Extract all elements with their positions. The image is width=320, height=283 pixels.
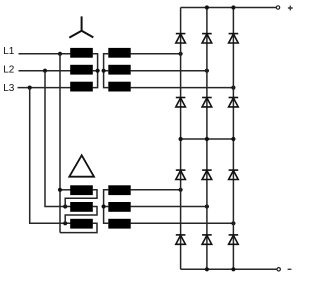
wire: wye secondary phase2 to bridge1 leg B [131, 70, 207, 72]
node: delta corner 2 [63, 204, 67, 208]
winding: delta primary phase 1 [70, 185, 93, 195]
winding: wye primary phase 2 [70, 65, 93, 75]
winding: delta secondary phase 2 [108, 202, 130, 212]
diode D11 bridge2 lower leg B [202, 235, 212, 244]
wire L1 input to wye primary [19, 53, 71, 55]
diode D10 bridge2 lower leg A [176, 235, 186, 244]
node: bridge1 leg A tap [179, 52, 183, 56]
winding: wye secondary phase 3 [108, 82, 130, 92]
node: mid rail leg C [231, 137, 235, 141]
diode D8 bridge2 upper leg B [202, 170, 212, 179]
node: mid rail leg B [205, 137, 209, 141]
svg-text:L2: L2 [3, 64, 15, 75]
diode D12 bridge2 lower leg C [229, 235, 239, 244]
winding: delta secondary phase 3 [108, 219, 130, 229]
node: mid rail leg A [179, 137, 183, 141]
diode D9 bridge2 upper leg C [229, 170, 239, 179]
node: bridge2 leg A tap [179, 188, 183, 192]
wire: wye primary neutral bracket [93, 54, 98, 88]
svg-text:L3: L3 [3, 83, 15, 94]
wire: negative DC rail [181, 268, 277, 270]
winding: wye primary phase 3 [70, 82, 93, 92]
wire: delta feed from L3 (vertical + horizontal) [30, 88, 71, 224]
node: rail+ leg B [205, 5, 209, 9]
node: delta corner 3 [63, 221, 67, 225]
wire: delta secondary phase3 to bridge2 leg C [131, 222, 234, 224]
wire L3 input to wye primary [18, 87, 71, 89]
node: bridge2 leg C tap [231, 221, 235, 225]
winding: delta primary phase 2 [70, 202, 93, 212]
wire: positive DC rail [181, 7, 277, 9]
wire: delta feed from L1 (vertical) [59, 54, 61, 233]
label - [288, 268, 292, 270]
delta symbol above second transformer [69, 155, 94, 176]
winding: delta secondary phase 1 [108, 185, 130, 195]
wire: delta feed from L2 (vertical + horizontal) [45, 71, 71, 207]
node: bridge1 leg C tap [231, 86, 235, 90]
diode D1 bridge1 upper leg A [176, 34, 186, 43]
wire: delta secondary phase2 to bridge2 leg B [131, 206, 207, 208]
wire L2 input to wye primary [19, 70, 71, 72]
wire: rectifier leg C (vertical) [232, 8, 234, 270]
diode D4 bridge1 lower leg A [176, 98, 186, 107]
winding: delta primary phase 3 [70, 219, 93, 229]
winding: wye secondary phase 2 [108, 65, 130, 75]
wire: intermediate rail between bridges [181, 138, 234, 140]
terminal: negative output [277, 268, 280, 271]
node: L2 tap to delta feed [43, 69, 47, 73]
winding: wye secondary phase 1 [108, 48, 130, 58]
diode D6 bridge1 lower leg C [229, 98, 239, 107]
diode D3 bridge1 upper leg C [229, 34, 239, 43]
wire: rectifier leg B (vertical) [206, 8, 208, 270]
node: bridge1 leg B tap [205, 69, 209, 73]
node: bridge2 leg B tap [205, 204, 209, 208]
node: wye secondary neutral [102, 69, 106, 73]
diode D7 bridge2 upper leg A [176, 170, 186, 179]
diode D2 bridge1 upper leg B [202, 34, 212, 43]
diode D5 bridge1 lower leg B [202, 98, 212, 107]
wire: delta secondary phase1 to bridge2 leg A [131, 189, 181, 191]
wire: delta secondary neutral bracket [104, 190, 109, 224]
winding: wye primary phase 1 [70, 48, 93, 58]
node: L1 tap to delta feed [58, 52, 62, 56]
wire: delta wrap phase3 to corner 1 [60, 223, 97, 232]
node: L3 tap to delta feed [28, 86, 32, 90]
wire: wye secondary phase3 to bridge1 leg C [131, 87, 234, 89]
node: rail+ leg C [231, 5, 235, 9]
wire: wye secondary neutral bracket [104, 54, 109, 88]
terminal: positive output [276, 6, 279, 9]
node: rail- leg C [231, 267, 235, 271]
node: delta corner 1 [58, 188, 62, 192]
wire: delta wrap phase2 to phase3 [65, 207, 97, 224]
node: rail- leg B [205, 267, 209, 271]
wye symbol (star) above first transformer [69, 16, 93, 37]
label + [288, 6, 293, 11]
wire: wye secondary phase1 to bridge1 leg A [131, 53, 181, 55]
svg-text:L1: L1 [3, 46, 15, 57]
wire: rectifier leg A (vertical) [180, 8, 182, 270]
node: delta secondary neutral [102, 204, 106, 208]
wire: delta wrap phase1 to phase2 [65, 190, 97, 207]
node: wye primary neutral [96, 69, 100, 73]
wire: delta primary phase1 left connection [60, 189, 71, 191]
